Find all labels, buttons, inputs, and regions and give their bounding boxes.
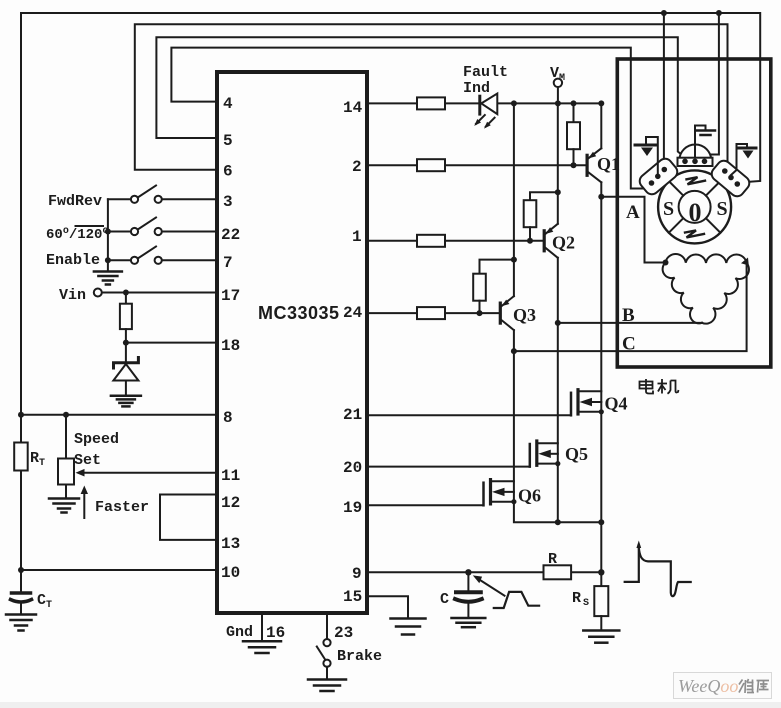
wire right sensor to ground — [731, 144, 747, 175]
svg-text:10: 10 — [221, 564, 240, 582]
annotation arrow to pin9 node — [473, 575, 505, 595]
svg-text:B: B — [622, 305, 635, 326]
winding delta left — [663, 263, 702, 324]
MOSFET Q4 — [571, 390, 601, 416]
wire phase A into motor — [601, 197, 665, 263]
svg-text:7: 7 — [223, 254, 233, 272]
svg-text:24: 24 — [343, 304, 363, 322]
motor box — [617, 59, 771, 367]
rotor N glyph bottom — [685, 230, 704, 237]
hall sensor right pad — [709, 158, 752, 199]
arrow Faster up — [81, 486, 88, 519]
svg-text:4: 4 — [223, 95, 233, 113]
svg-text:Gnd: Gnd — [226, 624, 253, 641]
potentiometer Speed Set — [58, 415, 74, 498]
wire pin 10 row — [21, 569, 217, 571]
MOSFET Q6 — [484, 480, 514, 506]
ground left sensor — [635, 145, 657, 156]
waveform trapezoid — [494, 592, 539, 608]
svg-text:15: 15 — [343, 588, 362, 606]
rotor N glyph top — [687, 177, 706, 184]
wire pin 17 row — [102, 292, 217, 294]
node delta vertex A — [663, 260, 669, 266]
svg-text:22: 22 — [221, 226, 240, 244]
svg-text:1: 1 — [352, 228, 362, 246]
switch S2 60/120 pin 22 — [108, 218, 217, 236]
svg-text:S: S — [583, 598, 589, 609]
svg-text:Faster: Faster — [95, 499, 149, 516]
node phase C junction — [511, 348, 517, 354]
svg-text:13: 13 — [221, 535, 240, 553]
resistor pull-up Q2 base — [524, 192, 558, 241]
LED Fault Ind — [474, 94, 497, 129]
node delta vertex C arrow — [741, 258, 749, 266]
winding delta right — [702, 263, 749, 323]
switch S3 Enable pin 7 — [108, 247, 217, 264]
svg-text:12: 12 — [221, 494, 240, 512]
svg-text:Brake: Brake — [337, 648, 382, 665]
resistor R(Vin) — [120, 293, 132, 363]
wire phase C into motor — [514, 263, 747, 351]
wire VM rail drop to center sensor — [706, 13, 719, 158]
wire pin 6 to right hall sensor — [135, 24, 728, 170]
svg-text:MC33035: MC33035 — [258, 303, 340, 323]
svg-text:11: 11 — [221, 467, 240, 485]
wire pin 16 Gnd stub — [261, 613, 263, 640]
resistor pull-up Q1 base — [567, 103, 580, 165]
wire pin 15 to ground — [367, 596, 408, 617]
rotor inner circle — [679, 191, 711, 223]
terminal VM — [554, 79, 562, 104]
svg-text:WeeQoo: WeeQoo — [678, 676, 738, 696]
transistor Q1 PNP — [587, 103, 601, 196]
IC U1 MC33035 body — [217, 72, 367, 613]
svg-text:Fault: Fault — [463, 64, 508, 81]
svg-text:Ind: Ind — [463, 80, 490, 97]
wire pin 9 row — [367, 571, 601, 573]
ground CT — [6, 615, 36, 631]
svg-text:Speed: Speed — [74, 431, 119, 448]
svg-text:Vin: Vin — [59, 287, 86, 304]
waveform current spike — [625, 541, 691, 597]
ground zener — [111, 396, 141, 407]
node dots on pin14 rail — [511, 100, 604, 106]
svg-text:20: 20 — [343, 459, 362, 477]
resistor pull-up Q3 base — [473, 260, 514, 314]
wire VM rail top border, left rail down to RT, right drop to right sensor — [21, 13, 760, 592]
wire pin 24 row — [367, 312, 499, 314]
svg-text:60o/120o: 60o/120o — [46, 226, 108, 243]
node phase B junction — [555, 320, 561, 326]
node junction dots on VM rail — [18, 10, 722, 573]
label motor CJK dianji — [640, 379, 679, 394]
wire pin 21 row — [367, 414, 571, 416]
capacitor C — [455, 572, 482, 616]
resistor RT — [14, 443, 28, 471]
wire pin 11 wiper arrow — [76, 469, 218, 477]
svg-text:Enable: Enable — [46, 252, 100, 269]
wire left sensor to ground — [646, 137, 658, 174]
svg-text:21: 21 — [343, 406, 362, 424]
zener diode D1 — [113, 358, 138, 396]
svg-text:C: C — [622, 334, 636, 355]
svg-text:S: S — [663, 198, 674, 220]
svg-text:Q2: Q2 — [552, 233, 575, 253]
rotor spokes — [669, 181, 721, 233]
ground capacitor C — [452, 618, 486, 627]
svg-text:0: 0 — [689, 198, 702, 227]
svg-text:2: 2 — [352, 158, 362, 176]
ground center sensor — [697, 131, 716, 136]
resistor Rs — [594, 572, 608, 629]
svg-text:Set: Set — [74, 452, 101, 469]
wire pin 1 row — [367, 240, 543, 242]
hall sensor center dome — [678, 145, 713, 167]
ground right sensor — [739, 148, 757, 159]
wire phase A bus down to Q4 — [600, 197, 602, 573]
capacitor CT — [11, 593, 32, 614]
resistor on pin 14 — [417, 97, 445, 109]
ground pin 16 — [243, 641, 281, 653]
ground pin 15 — [391, 619, 426, 635]
resistor R — [544, 565, 572, 579]
watermark WeeQoo — [674, 673, 772, 699]
terminal Vin — [94, 289, 102, 297]
svg-text:14: 14 — [343, 99, 363, 117]
svg-text:Q5: Q5 — [565, 444, 588, 464]
node dots pin 9 row — [465, 569, 604, 575]
wire switch common bus — [107, 199, 109, 270]
rotor outer circle — [658, 170, 731, 243]
svg-text:8: 8 — [223, 409, 233, 427]
resistor on pin 2 — [417, 159, 445, 171]
svg-text:R: R — [572, 590, 581, 607]
ground Brake — [308, 680, 346, 692]
svg-text:16: 16 — [266, 624, 285, 642]
svg-text:A: A — [626, 202, 640, 223]
wire pin 8 row — [21, 414, 217, 416]
watermark weiku CJK — [739, 679, 769, 693]
node bus dots — [105, 229, 111, 264]
resistor on pin 1 — [417, 235, 445, 247]
svg-text:Q6: Q6 — [518, 486, 541, 506]
svg-text:S: S — [717, 198, 728, 220]
switch Brake pin 23 — [317, 613, 331, 679]
wire phase B into motor — [558, 322, 702, 324]
svg-text:Q3: Q3 — [513, 305, 536, 325]
svg-text:FwdRev: FwdRev — [48, 193, 102, 210]
hall sensor left pad — [637, 156, 680, 197]
svg-text:19: 19 — [343, 499, 362, 517]
svg-text:C: C — [440, 591, 449, 608]
svg-text:Q1: Q1 — [597, 154, 620, 174]
svg-text:23: 23 — [334, 624, 353, 642]
node source rail dots — [555, 519, 605, 525]
svg-text:5: 5 — [223, 132, 233, 150]
wire pin 2 row — [367, 164, 586, 166]
svg-text:6: 6 — [223, 163, 233, 181]
wire pin 14 row — [367, 102, 601, 104]
svg-text:9: 9 — [352, 565, 362, 583]
ground potentiometer — [49, 499, 79, 513]
wire pin 18 row — [126, 342, 217, 344]
svg-text:17: 17 — [221, 287, 240, 305]
wire pin 19 row — [367, 504, 484, 506]
ground Rs — [583, 631, 619, 643]
svg-text:18: 18 — [221, 337, 240, 355]
wire VM rail drop to left sensor — [663, 13, 665, 167]
node dot pull-up Q1 bottom — [571, 162, 577, 168]
ground switch bus — [94, 272, 122, 285]
wire center sensor to ground — [695, 126, 706, 158]
MOSFET Q5 — [530, 441, 558, 467]
wire pin 20 row — [367, 466, 530, 468]
wire pin 5 to center hall sensor — [156, 37, 685, 157]
transistor Q3 PNP — [500, 103, 601, 522]
wire pin 12 to pin 13 loop — [160, 495, 217, 540]
wire pin 4 to left hall sensor — [171, 48, 650, 189]
svg-text:R: R — [548, 551, 557, 568]
svg-text:3: 3 — [223, 193, 233, 211]
transistor Q2 PNP — [544, 103, 558, 522]
svg-text:Q4: Q4 — [605, 394, 628, 414]
winding delta top — [666, 254, 747, 263]
switch S1 FwdRev pin 3 — [108, 186, 217, 203]
node Vin junction — [123, 290, 129, 346]
resistor on pin 24 — [417, 307, 445, 319]
node phase A junction — [598, 194, 604, 200]
